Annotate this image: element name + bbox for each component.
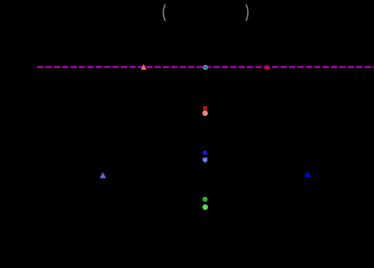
marker: coral triangle on line bbox=[141, 64, 147, 70]
dashed magenta threshold line bbox=[37, 66, 374, 68]
marker: red triangle (under line) bbox=[264, 64, 270, 69]
marker: royal blue pin (square + tail) bbox=[203, 158, 208, 164]
marker: light green circle bbox=[202, 204, 208, 210]
marker: light coral circle bbox=[202, 110, 208, 116]
marker: violet-blue triangle left bbox=[100, 172, 107, 178]
marker: blue triangle right bbox=[304, 171, 311, 177]
marker: medium blue circle bbox=[203, 150, 208, 155]
title left parenthesis bbox=[163, 4, 165, 21]
title right parenthesis bbox=[246, 4, 248, 21]
marker: green circle bbox=[203, 197, 208, 202]
marker: teal circle on line bbox=[203, 65, 208, 70]
dash over teal circle bbox=[204, 66, 208, 68]
marker: dark red square bbox=[203, 106, 207, 110]
